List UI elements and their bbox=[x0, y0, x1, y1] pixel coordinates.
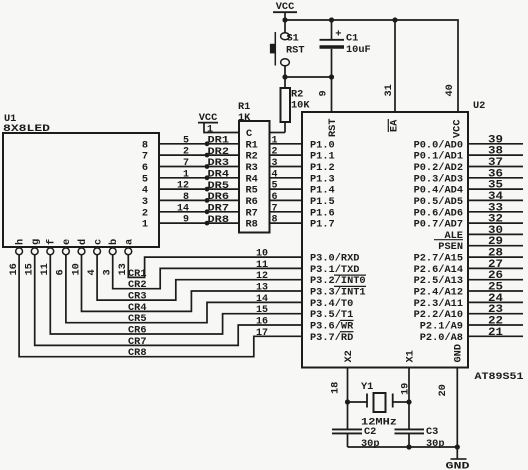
wire R2 to network common pin bbox=[270, 132, 286, 134]
svg-text:27: 27 bbox=[488, 259, 503, 271]
svg-text:P2.0/A8: P2.0/A8 bbox=[420, 332, 463, 344]
wire U2 pin 29 stub bbox=[468, 245, 523, 247]
wire network R4 output to U2 P1.3 (pin 4) bbox=[270, 177, 303, 179]
svg-text:28: 28 bbox=[488, 248, 503, 260]
svg-text:P1.5: P1.5 bbox=[310, 196, 335, 208]
svg-text:P1.6: P1.6 bbox=[310, 207, 335, 219]
junction on net DR7 bbox=[205, 209, 210, 214]
wire U1 row pin 1 to network R4 (net DR4) bbox=[159, 177, 239, 179]
svg-text:R7: R7 bbox=[246, 207, 258, 219]
svg-text:9: 9 bbox=[183, 215, 189, 226]
U1 pin 16 (column h) connector bbox=[16, 248, 23, 255]
svg-text:33: 33 bbox=[488, 202, 503, 214]
svg-text:3: 3 bbox=[102, 269, 114, 275]
svg-text:8: 8 bbox=[142, 139, 148, 151]
svg-text:39: 39 bbox=[488, 134, 503, 146]
wire CR7 (U1 col g to U2 P3.6) bbox=[35, 255, 302, 346]
svg-text:2: 2 bbox=[183, 147, 189, 158]
svg-text:5: 5 bbox=[183, 135, 189, 146]
junction GND bbox=[455, 444, 460, 449]
svg-text:25: 25 bbox=[488, 282, 503, 294]
wire CR3 (U1 col c to U2 P3.2) bbox=[97, 255, 302, 300]
svg-text:P1.1: P1.1 bbox=[310, 151, 335, 163]
wire VCC rail to U2 VCC pin 40 bbox=[285, 20, 458, 112]
svg-text:VCC: VCC bbox=[452, 119, 464, 138]
wire U2 pin 38 stub bbox=[468, 154, 523, 156]
svg-text:14: 14 bbox=[177, 203, 189, 214]
svg-text:30: 30 bbox=[488, 225, 503, 237]
svg-text:DR7: DR7 bbox=[208, 203, 230, 215]
wire U2 pin 25 stub bbox=[468, 290, 523, 292]
svg-text:14: 14 bbox=[256, 294, 268, 305]
wire U1 row pin 2 to network R2 (net DR2) bbox=[159, 154, 239, 156]
svg-text:P2.7/A15: P2.7/A15 bbox=[414, 253, 463, 265]
svg-text:8: 8 bbox=[183, 192, 189, 203]
svg-text:P0.7/AD7: P0.7/AD7 bbox=[414, 219, 463, 231]
junction RST node / C1 bbox=[329, 74, 334, 79]
wire U2 pin 21 stub bbox=[468, 335, 523, 337]
svg-text:DR1: DR1 bbox=[208, 135, 230, 147]
svg-text:17: 17 bbox=[256, 328, 268, 339]
svg-text:S1: S1 bbox=[287, 33, 299, 45]
svg-text:GND: GND bbox=[453, 344, 465, 363]
wire U2 pin 37 stub bbox=[468, 166, 523, 168]
svg-text:P1.0: P1.0 bbox=[310, 139, 335, 151]
wire U2 pin 35 stub bbox=[468, 188, 523, 190]
svg-text:12: 12 bbox=[256, 271, 268, 282]
crystal Y1 12MHz bbox=[348, 401, 368, 403]
svg-text:CR7: CR7 bbox=[128, 336, 147, 348]
svg-text:34: 34 bbox=[488, 191, 504, 203]
svg-text:P3.1/TXD: P3.1/TXD bbox=[310, 264, 359, 276]
svg-text:24: 24 bbox=[488, 293, 504, 305]
wire U2 pin 22 stub bbox=[468, 324, 523, 326]
svg-text:CR6: CR6 bbox=[128, 325, 147, 337]
wire X2 to crystal / C2 bbox=[347, 368, 349, 430]
svg-text:P1.7: P1.7 bbox=[310, 219, 335, 231]
svg-text:PSEN: PSEN bbox=[438, 241, 463, 253]
wire CR6 (U1 col f to U2 P3.5) bbox=[50, 255, 302, 334]
wire U2 pin 34 stub bbox=[468, 199, 523, 201]
svg-text:C2: C2 bbox=[364, 426, 376, 438]
svg-text:11: 11 bbox=[39, 263, 51, 275]
svg-text:3: 3 bbox=[142, 196, 148, 208]
svg-text:R5: R5 bbox=[246, 185, 258, 197]
svg-text:P2.3/A11: P2.3/A11 bbox=[414, 298, 463, 310]
wire network R6 output to U2 P1.5 (pin 6) bbox=[270, 199, 303, 201]
svg-text:9: 9 bbox=[318, 90, 330, 96]
wire U2 pin 24 stub bbox=[468, 301, 523, 303]
svg-text:16: 16 bbox=[256, 317, 268, 328]
wire CR8 (U1 col h to U2 P3.7) bbox=[19, 255, 302, 357]
wire CR5 (U1 col e to U2 P3.4) bbox=[66, 255, 302, 323]
wire network R3 output to U2 P1.2 (pin 3) bbox=[270, 166, 303, 168]
wire U2 pin 30 stub bbox=[468, 233, 523, 235]
svg-text:5: 5 bbox=[272, 181, 278, 192]
wire U1 row pin 5 to network R1 (net DR1) bbox=[159, 143, 239, 145]
svg-text:P0.1/AD1: P0.1/AD1 bbox=[414, 151, 463, 163]
svg-text:P0.5/AD5: P0.5/AD5 bbox=[414, 196, 463, 208]
svg-text:R6: R6 bbox=[246, 196, 258, 208]
svg-text:+: + bbox=[335, 29, 341, 41]
svg-text:P0.2/AD2: P0.2/AD2 bbox=[414, 162, 463, 174]
svg-text:35: 35 bbox=[488, 180, 503, 192]
svg-text:18: 18 bbox=[330, 382, 342, 394]
svg-text:P3.0/RXD: P3.0/RXD bbox=[310, 253, 359, 265]
svg-text:22: 22 bbox=[488, 316, 503, 328]
svg-text:2: 2 bbox=[272, 147, 278, 158]
svg-text:a: a bbox=[124, 239, 136, 245]
svg-text:P3.4/T0: P3.4/T0 bbox=[310, 298, 353, 310]
svg-text:RST: RST bbox=[327, 118, 339, 137]
svg-text:20: 20 bbox=[437, 384, 449, 396]
svg-text:5: 5 bbox=[142, 173, 148, 185]
svg-text:1: 1 bbox=[272, 135, 278, 146]
svg-text:10uF: 10uF bbox=[346, 44, 371, 56]
svg-text:10: 10 bbox=[256, 249, 268, 260]
svg-text:CR8: CR8 bbox=[128, 347, 147, 359]
svg-text:8: 8 bbox=[272, 215, 278, 226]
svg-text:15: 15 bbox=[24, 263, 36, 275]
U1 pin 4 (column c) connector bbox=[94, 248, 101, 255]
svg-text:DR5: DR5 bbox=[208, 180, 230, 192]
svg-text:d: d bbox=[77, 239, 89, 245]
svg-text:h: h bbox=[14, 239, 26, 245]
svg-text:4: 4 bbox=[86, 269, 98, 275]
svg-text:Y1: Y1 bbox=[361, 381, 373, 393]
svg-text:2: 2 bbox=[142, 207, 148, 219]
svg-text:EA: EA bbox=[389, 119, 401, 132]
svg-text:7: 7 bbox=[272, 203, 278, 214]
wire U2 pin 32 stub bbox=[468, 222, 523, 224]
wire ground rail bbox=[348, 446, 458, 448]
svg-text:R8: R8 bbox=[246, 219, 258, 231]
junction RST node / S1-R2 bbox=[282, 74, 287, 79]
svg-text:10K: 10K bbox=[291, 100, 310, 112]
svg-text:7: 7 bbox=[142, 151, 148, 163]
U1 pin 15 (column g) connector bbox=[31, 248, 38, 255]
wire RST node to U2 pin 9 bbox=[331, 77, 333, 112]
svg-text:f: f bbox=[46, 239, 58, 245]
svg-text:11: 11 bbox=[256, 260, 268, 271]
svg-text:CR2: CR2 bbox=[128, 279, 147, 291]
svg-text:6: 6 bbox=[272, 192, 278, 203]
wire U1 row pin 14 to network R7 (net DR7) bbox=[159, 211, 239, 213]
svg-text:R3: R3 bbox=[246, 162, 258, 174]
svg-text:CR1: CR1 bbox=[128, 268, 147, 280]
svg-text:DR8: DR8 bbox=[208, 214, 230, 226]
svg-text:P3.5/T1: P3.5/T1 bbox=[310, 309, 353, 321]
svg-text:15: 15 bbox=[256, 305, 268, 316]
svg-text:DR4: DR4 bbox=[208, 169, 230, 181]
wire U2 GND pin 20 to rail bbox=[456, 368, 458, 448]
wire RST node bbox=[285, 76, 332, 78]
svg-text:DR3: DR3 bbox=[208, 157, 230, 169]
svg-text:38: 38 bbox=[488, 146, 503, 158]
wire CR4 (U1 col d to U2 P3.3) bbox=[82, 255, 303, 312]
svg-text:DR6: DR6 bbox=[208, 191, 230, 203]
svg-text:7: 7 bbox=[183, 158, 189, 169]
svg-text:X1: X1 bbox=[405, 350, 417, 362]
pushbutton S1 RST bbox=[284, 20, 286, 33]
resistor R2 10K bbox=[284, 77, 286, 88]
svg-text:4: 4 bbox=[272, 169, 278, 180]
svg-text:b: b bbox=[108, 239, 120, 245]
svg-text:CR3: CR3 bbox=[128, 291, 147, 303]
svg-text:12: 12 bbox=[177, 181, 189, 192]
wire U1 row pin 9 to network R8 (net DR8) bbox=[159, 222, 239, 224]
svg-text:29: 29 bbox=[488, 236, 503, 248]
svg-text:CR5: CR5 bbox=[128, 313, 147, 325]
wire X1 to C3 bbox=[408, 368, 410, 430]
svg-text:21: 21 bbox=[488, 327, 503, 339]
svg-text:37: 37 bbox=[488, 157, 503, 169]
wire network R8 output to U2 P1.7 (pin 8) bbox=[270, 222, 303, 224]
IC U2 AT89S51 (box) bbox=[302, 112, 468, 368]
svg-text:3: 3 bbox=[272, 158, 278, 169]
wire U2 pin 26 stub bbox=[468, 279, 523, 281]
junction on net DR2 bbox=[205, 153, 210, 158]
junction on net DR6 bbox=[205, 198, 210, 203]
wire U2 pin 28 stub bbox=[468, 256, 523, 258]
U1 pin 13 (column a) connector bbox=[125, 248, 132, 255]
svg-text:RST: RST bbox=[286, 45, 305, 57]
svg-text:23: 23 bbox=[488, 304, 503, 316]
svg-text:6: 6 bbox=[55, 269, 67, 275]
junction on net DR4 bbox=[205, 175, 210, 180]
U1 pin 3 (column b) connector bbox=[109, 248, 116, 255]
svg-text:C1: C1 bbox=[346, 33, 358, 45]
wire network R1 output to U2 P1.0 (pin 1) bbox=[270, 143, 303, 145]
svg-text:P1.3: P1.3 bbox=[310, 173, 335, 185]
wire network R7 output to U2 P1.6 (pin 7) bbox=[270, 211, 303, 213]
svg-text:CR4: CR4 bbox=[128, 302, 147, 314]
svg-text:P0.4/AD4: P0.4/AD4 bbox=[414, 185, 463, 197]
svg-text:P3.2/INT0: P3.2/INT0 bbox=[310, 275, 366, 287]
wire U2 pin 39 stub bbox=[468, 143, 523, 145]
junction on net DR5 bbox=[205, 187, 210, 192]
svg-text:c: c bbox=[92, 239, 104, 245]
junction X2 / Y1 bbox=[345, 399, 350, 404]
svg-text:P2.2/A10: P2.2/A10 bbox=[414, 309, 463, 321]
capacitor C2 30p bbox=[332, 428, 362, 430]
junction X1 / Y1 bbox=[406, 399, 411, 404]
svg-text:P0.0/AD0: P0.0/AD0 bbox=[414, 139, 463, 151]
svg-text:P3.6/WR: P3.6/WR bbox=[310, 321, 354, 333]
resistor network R1 1K (box) bbox=[239, 121, 270, 233]
junction on net DR3 bbox=[205, 164, 210, 169]
junction VCC rail / C1 bbox=[329, 17, 334, 22]
svg-text:X2: X2 bbox=[343, 350, 355, 362]
svg-text:GND: GND bbox=[446, 461, 470, 470]
wire U1 row pin 12 to network R5 (net DR5) bbox=[159, 188, 239, 190]
junction VCC rail / S1 bbox=[282, 17, 287, 22]
svg-text:30p: 30p bbox=[426, 438, 445, 450]
junction on net DR8 bbox=[205, 221, 210, 226]
svg-text:AT89S51: AT89S51 bbox=[475, 371, 524, 383]
svg-text:U2: U2 bbox=[473, 100, 485, 112]
svg-text:P2.6/A14: P2.6/A14 bbox=[414, 264, 463, 276]
svg-text:R4: R4 bbox=[246, 173, 258, 185]
svg-text:40: 40 bbox=[444, 84, 456, 96]
wire U2 pin 27 stub bbox=[468, 267, 523, 269]
svg-text:P2.4/A12: P2.4/A12 bbox=[414, 287, 463, 299]
svg-text:16: 16 bbox=[8, 263, 20, 275]
wire U2 pin 36 stub bbox=[468, 177, 523, 179]
svg-text:36: 36 bbox=[488, 168, 503, 180]
svg-text:26: 26 bbox=[488, 270, 503, 282]
wire U1 row pin 7 to network R3 (net DR3) bbox=[159, 166, 239, 168]
svg-text:P3.3/INT1: P3.3/INT1 bbox=[310, 287, 366, 299]
junction X1 / ground rail bbox=[406, 444, 411, 449]
svg-text:P1.4: P1.4 bbox=[310, 185, 335, 197]
svg-text:e: e bbox=[61, 239, 73, 245]
capacitor C1 10uF bbox=[331, 20, 333, 39]
svg-text:P1.2: P1.2 bbox=[310, 162, 335, 174]
svg-text:R2: R2 bbox=[246, 151, 258, 163]
svg-text:P3.7/RD: P3.7/RD bbox=[310, 332, 353, 344]
svg-text:DR2: DR2 bbox=[208, 146, 230, 158]
ground symbol GND bbox=[456, 447, 458, 459]
svg-text:32: 32 bbox=[488, 214, 503, 226]
U1 pin 6 (column e) connector bbox=[63, 248, 70, 255]
svg-text:4: 4 bbox=[142, 185, 148, 197]
svg-text:g: g bbox=[30, 239, 42, 245]
U1 pin 11 (column f) connector bbox=[47, 248, 54, 255]
wire U1 row pin 8 to network R6 (net DR6) bbox=[159, 199, 239, 201]
junction on net DR1 bbox=[205, 141, 210, 146]
wire network R2 output to U2 P1.1 (pin 2) bbox=[270, 154, 303, 156]
svg-text:P2.5/A13: P2.5/A13 bbox=[414, 275, 463, 287]
svg-text:31: 31 bbox=[383, 84, 395, 96]
svg-text:30p: 30p bbox=[361, 438, 380, 450]
wire U2 pin 33 stub bbox=[468, 211, 523, 213]
svg-text:1: 1 bbox=[142, 219, 148, 231]
wire network R5 output to U2 P1.4 (pin 5) bbox=[270, 188, 303, 190]
svg-text:1: 1 bbox=[183, 169, 189, 180]
svg-text:VCC: VCC bbox=[276, 1, 295, 13]
junction VCC rail / EA bbox=[392, 17, 397, 22]
svg-text:P0.6/AD6: P0.6/AD6 bbox=[414, 207, 463, 219]
wire CR2 (U1 col b to U2 P3.1) bbox=[113, 255, 302, 289]
svg-text:C3: C3 bbox=[426, 426, 438, 438]
svg-text:C: C bbox=[246, 128, 252, 140]
svg-text:P2.1/A9: P2.1/A9 bbox=[420, 321, 463, 333]
svg-text:10: 10 bbox=[70, 263, 82, 275]
capacitor C3 30p bbox=[395, 428, 425, 430]
svg-text:P0.3/AD3: P0.3/AD3 bbox=[414, 173, 463, 185]
svg-text:R1: R1 bbox=[246, 139, 258, 151]
wire EA pin 31 to VCC rail bbox=[394, 20, 396, 112]
wire CR1 (U1 col a to U2 P3.0) bbox=[128, 255, 302, 278]
svg-text:1K: 1K bbox=[238, 112, 251, 124]
svg-text:6: 6 bbox=[142, 162, 148, 174]
wire U2 pin 23 stub bbox=[468, 313, 523, 315]
U1 pin 10 (column d) connector bbox=[78, 248, 85, 255]
svg-text:19: 19 bbox=[400, 383, 412, 395]
svg-text:13: 13 bbox=[256, 283, 268, 294]
